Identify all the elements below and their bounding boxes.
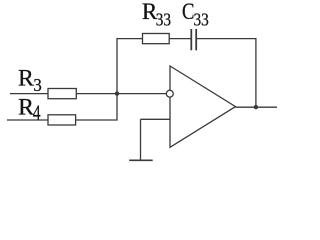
wire R33 to C33	[169, 38, 191, 40]
wire feedback left vertical	[117, 39, 143, 94]
wire R4 to node A	[76, 94, 117, 120]
svg-text:33: 33	[194, 9, 209, 29]
svg-text:4: 4	[33, 100, 41, 124]
capacitor C33	[191, 29, 196, 50]
svg-text:33: 33	[156, 9, 171, 29]
svg-text:3: 3	[33, 75, 41, 95]
wire input to R4	[7, 119, 48, 121]
node B junction at output	[254, 105, 258, 109]
wire output	[236, 106, 278, 108]
op-amp U1 inverting input bubble	[166, 90, 173, 97]
resistor R4	[48, 115, 76, 125]
resistor R3	[48, 89, 76, 99]
resistor R33	[143, 34, 170, 44]
op-amp U1 triangle	[170, 66, 236, 147]
wire non-inverting input	[141, 118, 171, 120]
wire to ground	[140, 119, 142, 160]
ground	[129, 159, 153, 161]
svg-text:R: R	[18, 66, 34, 91]
wire input to R3	[10, 93, 48, 95]
wire R3 to inverting input	[76, 93, 166, 95]
wire C33 to output node	[197, 39, 256, 107]
node A junction	[115, 91, 119, 95]
